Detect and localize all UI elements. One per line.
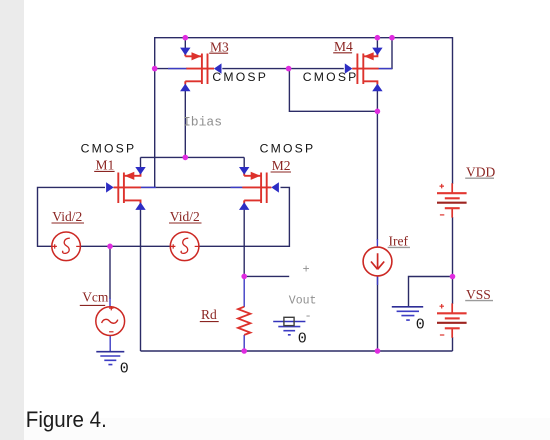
wire M4 bulk hook to top rail <box>379 38 393 69</box>
M2 source-top pin arrow <box>239 167 249 175</box>
wire right ground to VSS node <box>409 277 453 308</box>
node gate rail tee <box>286 66 292 72</box>
node Rd / bottom rail <box>241 348 247 354</box>
wire Vcm drop <box>109 246 111 299</box>
wire Ibias M3 drain to tail <box>184 84 186 157</box>
M3 drain-bottom pin arrow <box>180 84 190 92</box>
wire M4 drain down to Iref <box>376 84 378 240</box>
node tail / Ibias <box>183 155 189 161</box>
wire Vid1 to Vcm node <box>80 245 170 247</box>
label M4 <box>333 39 353 54</box>
wire M1 gate hook <box>38 187 106 246</box>
node M4 source / top rail <box>375 35 381 41</box>
Vout probe box <box>284 317 294 325</box>
svg-text:Rd: Rd <box>201 307 217 322</box>
wire VDD minus to VSS plus <box>452 217 454 304</box>
svg-text:Vid/2: Vid/2 <box>52 209 82 224</box>
svg-text:CMOSP: CMOSP <box>212 70 268 84</box>
wire M1 drain down to bottom rail <box>140 203 142 351</box>
wire left rail (bulk rail) <box>154 37 156 187</box>
M1 drain-bottom pin arrow <box>135 202 145 210</box>
label Vcm <box>80 289 109 305</box>
wire Rd bottom lead <box>243 335 245 351</box>
M4 source arrow (red) <box>364 52 374 60</box>
node Iref / bottom rail <box>375 348 381 354</box>
wire Iref top lead <box>376 239 378 247</box>
wire Iref bottom lead <box>377 276 379 285</box>
M3 source arrow (red) <box>192 52 202 60</box>
M1 source arrow (red) <box>125 172 135 180</box>
label M2 <box>271 158 291 173</box>
wire bottom rail VSS <box>141 350 453 352</box>
svg-text:CMOSP: CMOSP <box>260 142 316 156</box>
svg-text:0: 0 <box>120 360 129 377</box>
ground at VSS <box>392 307 423 320</box>
node M4 bulk hook / top rail <box>389 35 395 41</box>
wire VSS minus to bottom rail <box>452 337 454 351</box>
wire M1 bulk lead <box>141 186 156 188</box>
node M4 drain / gate link <box>375 109 381 115</box>
label VSS <box>465 287 493 302</box>
svg-text:VSS: VSS <box>466 287 491 302</box>
M2 source arrow (red) <box>251 172 261 180</box>
wire Rd top lead <box>243 276 245 307</box>
svg-text:+: + <box>303 262 310 276</box>
wire M2 drain down to Rd <box>243 203 245 276</box>
left gray margin strip <box>0 0 24 440</box>
wire gate hook down to node <box>289 69 377 112</box>
M2 gate pin arrow <box>271 182 279 192</box>
wire tail rail <box>141 156 245 158</box>
wire Vcm top lead <box>109 298 111 307</box>
label VDD <box>465 164 495 179</box>
svg-text:Vout: Vout <box>289 294 317 307</box>
label M3 <box>209 39 229 54</box>
node M3 source / top rail <box>183 35 189 41</box>
svg-text:CMOSP: CMOSP <box>303 70 359 84</box>
wire M2 source drop <box>243 157 245 174</box>
wire right rail to VDD <box>452 37 454 184</box>
label Rd <box>200 307 219 322</box>
node ground / VSS link <box>450 274 456 280</box>
wire M2 bulk lead <box>231 186 243 188</box>
node Vout tap / Rd <box>241 274 247 280</box>
ground at Vcm <box>96 352 124 365</box>
svg-text:-: - <box>305 309 312 323</box>
svg-text:Vid/2: Vid/2 <box>170 209 200 224</box>
M1 gate pin arrow <box>106 182 114 192</box>
M4 source-top pin arrow <box>372 48 382 56</box>
wire bulk band M1-M2 <box>141 186 243 188</box>
wire M4 source drop <box>376 38 378 55</box>
svg-text:M1: M1 <box>96 157 115 172</box>
wire top rail VDD <box>155 37 453 39</box>
M3 gate pin arrow <box>214 63 222 73</box>
label Iref <box>388 233 410 248</box>
label Vid/2 #2 <box>169 209 202 224</box>
node left rail / M3 bulk <box>152 66 158 72</box>
label Vid/2 #1 <box>52 209 85 224</box>
svg-text:0: 0 <box>298 331 307 348</box>
M3 source-top pin arrow <box>180 48 190 56</box>
M2 drain-bottom pin arrow <box>239 202 249 210</box>
label M1 <box>94 157 114 172</box>
ground at Vout probe <box>273 322 305 335</box>
svg-text:CMOSP: CMOSP <box>81 142 137 156</box>
svg-text:M3: M3 <box>210 39 229 54</box>
wire gate rail M3-M4 <box>222 68 343 70</box>
node Vid wire / Vcm branch <box>107 244 113 250</box>
svg-text:Figure 4.: Figure 4. <box>26 407 107 432</box>
svg-text:VDD: VDD <box>466 164 495 179</box>
wire M4 bulk lead <box>378 68 392 70</box>
svg-text:Vcm: Vcm <box>82 289 109 304</box>
wire M3 bulk stub to left rail <box>155 68 187 70</box>
wire M3 bulk lead <box>168 68 187 70</box>
wire Vout plus tap <box>244 275 289 277</box>
wire M3 source drop <box>184 38 186 55</box>
wire M1 source drop <box>140 157 142 174</box>
svg-text:M4: M4 <box>334 39 353 54</box>
wire Iref to bottom rail <box>377 276 379 351</box>
svg-text:Ibias: Ibias <box>183 114 222 129</box>
svg-text:M2: M2 <box>272 158 291 173</box>
svg-text:0: 0 <box>416 316 425 333</box>
M4 drain-bottom pin arrow <box>372 84 382 92</box>
svg-text:Iref: Iref <box>389 233 409 248</box>
wire Vid2 to M2 gate <box>199 187 289 246</box>
M1 drain-top pin arrow <box>135 167 145 175</box>
M4 gate pin arrow <box>345 63 353 73</box>
wire Vcm bottom lead to ground <box>109 336 111 352</box>
